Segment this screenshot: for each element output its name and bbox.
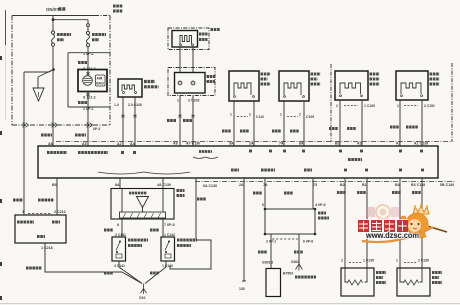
connector mark X upper lamp	[87, 72, 90, 75]
wire SDM to side sensor driver right	[366, 178, 368, 268]
side impact sensor passenger box	[397, 268, 430, 296]
svg-text:B3 C138: B3 C138	[411, 183, 425, 187]
wire airbag to clockspring right	[192, 47, 194, 73]
clock spring terminals	[178, 81, 182, 85]
label wire 0.35 yellow left	[41, 134, 52, 137]
brace SDM bottom left	[98, 172, 190, 174]
wire branch to fuse B11	[53, 19, 88, 21]
wire instrument panel boundary right vertical (dash-dot)	[109, 16, 111, 126]
svg-text:2A: 2A	[249, 142, 254, 146]
label SDM reserve power	[348, 158, 362, 161]
wire pretensioner driver right	[361, 100, 363, 146]
label wire 0.3 black/white	[26, 267, 42, 270]
label SDM right pin names	[344, 169, 424, 172]
side airbag driver connector box	[229, 71, 259, 101]
module box below DLC	[266, 269, 281, 297]
label wire 0.35 brown/white	[222, 130, 231, 133]
label wire 0.35 yellow right	[75, 134, 86, 137]
svg-text:1 C130: 1 C130	[364, 104, 375, 108]
svg-text:1: 1	[230, 113, 232, 117]
DLC diagnostic connector box	[265, 209, 315, 234]
svg-text:7A: 7A	[263, 183, 268, 187]
svg-text:8A: 8A	[115, 183, 120, 187]
label wire 0.5 brown sensor L	[337, 191, 346, 194]
label passenger airbag	[144, 82, 159, 87]
svg-text:2A: 2A	[239, 183, 244, 187]
svg-text:B6: B6	[52, 183, 57, 187]
shorting busbar	[120, 212, 166, 218]
label SDM diagnostic	[304, 169, 312, 172]
shorting bar connector box	[111, 189, 174, 220]
svg-text:3A: 3A	[229, 142, 234, 146]
watermark url	[362, 227, 433, 242]
watermark weiku text	[357, 219, 408, 233]
svg-text:6A C130: 6A C130	[203, 184, 217, 188]
wire DLC left down	[270, 234, 272, 269]
svg-text:1: 1	[280, 113, 282, 117]
svg-text:I/P-4: I/P-4	[93, 127, 100, 131]
label wire 0.5 black driver pret	[347, 127, 356, 130]
svg-text:1: 1	[22, 210, 24, 214]
svg-text:1: 1	[396, 259, 398, 263]
connector dashes PCM	[28, 213, 52, 215]
fuse B11	[86, 20, 89, 70]
svg-text:2 C136: 2 C136	[418, 259, 429, 263]
label wire 0.5 white	[290, 130, 299, 133]
wire harness boundary above SDM (dash-dot)	[56, 141, 452, 143]
wire passenger airbag left	[122, 97, 124, 146]
wire SDM to side sensor passenger right	[421, 178, 423, 268]
ground G10 symbol	[141, 284, 147, 295]
svg-text:7 I/P-6: 7 I/P-6	[164, 223, 175, 227]
label module name	[295, 276, 316, 279]
svg-text:C109: C109	[306, 115, 314, 119]
wire fuse B14 line to SDM pin A6	[52, 125, 54, 146]
wire SDM to side sensor passenger left	[399, 178, 401, 268]
svg-text:1 I/P-L: 1 I/P-L	[83, 107, 95, 111]
svg-text:73: 73	[313, 183, 317, 187]
wire pretensioner passenger right	[421, 100, 423, 146]
label wire 0.3 yellow	[78, 61, 87, 64]
label wire 0.8 yellow L	[104, 229, 113, 232]
label PCM ON/ST input	[17, 222, 60, 237]
label wire 0.3 brown	[78, 101, 87, 104]
svg-text:2 C210: 2 C210	[54, 210, 66, 214]
svg-text:2: 2	[341, 259, 343, 263]
label driver airbag	[199, 34, 208, 40]
instrument panel box around lamp	[68, 53, 110, 107]
wire DLC right down	[298, 234, 300, 264]
label wire 0.5 blue driver pret	[329, 127, 338, 130]
wire ON/ST feed top horizontal	[12, 15, 95, 17]
steering wheel boundary box (dash-dot)	[168, 28, 209, 50]
wire pretensioner driver left	[339, 100, 341, 146]
airbag warning lamp box	[78, 70, 107, 92]
connector mark X passenger wires	[122, 115, 137, 118]
side airbag passenger connector box	[279, 71, 309, 101]
connector dashes DLC bottom	[272, 238, 298, 240]
label wire 0.35 black	[167, 119, 177, 122]
svg-text:B2: B2	[335, 142, 340, 146]
watermark mascot	[401, 204, 447, 238]
svg-text:1: 1	[177, 99, 179, 103]
brace driver airbag pins	[193, 157, 218, 159]
label SDM ON/ST input	[47, 151, 423, 153]
label side airbag driver	[261, 74, 271, 84]
wire side airbag driver right	[253, 101, 255, 146]
label SDM ground	[231, 169, 239, 172]
svg-text:8A: 8A	[299, 142, 304, 146]
wire clockspring to SDM right	[192, 96, 194, 147]
label wire 0.5 yellow return	[197, 198, 206, 201]
label wire 0.5 yellow left	[13, 199, 23, 202]
svg-text:2 C151: 2 C151	[424, 104, 435, 108]
svg-text:A7 C130: A7 C130	[186, 142, 200, 146]
svg-text:A8: A8	[173, 142, 178, 146]
wire cluster feed to PCM (left of SDM)	[23, 125, 25, 215]
label wire 0.35 white/black	[240, 130, 249, 133]
warning indicator triangle	[38, 70, 54, 89]
wire instrument panel boundary left vertical (dash-dot)	[11, 16, 13, 126]
wires into busbar	[122, 189, 163, 213]
node junction dot	[52, 18, 55, 21]
wire pretensioner passenger left	[399, 100, 401, 146]
label side sensor driver	[376, 273, 386, 283]
label steering wheel	[211, 28, 221, 31]
label shorting bar title	[129, 192, 147, 195]
wire airbag to clockspring left	[179, 47, 181, 73]
driver airbag module box	[172, 31, 198, 48]
label wire 0.5 green	[183, 119, 193, 122]
wire return loop switch R to SDM 6A	[170, 240, 211, 269]
svg-text:4A C130: 4A C130	[157, 183, 171, 187]
clock spring boundary box (dash-dot)	[168, 68, 215, 96]
svg-text:5B C140: 5B C140	[440, 183, 454, 187]
svg-text:2: 2	[336, 104, 338, 108]
svg-text:C110: C110	[256, 115, 264, 119]
lamp symbol	[83, 76, 93, 86]
wire I/P harness boundary horizontal (dash-dot)	[12, 124, 110, 126]
wire cluster link	[24, 70, 54, 126]
wire SDM 2A long down	[242, 178, 246, 281]
SDM airbag control module box	[38, 146, 438, 178]
wire side airbag passenger left	[283, 101, 285, 146]
label pretensioner passenger	[430, 74, 440, 84]
label seat belt switch passenger	[177, 240, 197, 246]
wire PCM to ground junction	[45, 243, 122, 272]
svg-text:G10: G10	[139, 296, 146, 300]
harness separator dash-dot vertical right	[451, 63, 453, 142]
label shorting connector right	[177, 191, 185, 196]
wire harness boundary below SDM (dash-dot)	[195, 181, 455, 183]
connector mark X clockspring wires	[179, 115, 195, 118]
fuse B14	[51, 20, 54, 70]
wire switch L to ground	[119, 261, 142, 284]
scan artifact edge nubs	[0, 56, 2, 300]
label wire 0.5 blue/black pass pret	[406, 126, 418, 129]
passenger airbag connector box	[118, 79, 142, 97]
svg-text:8: 8	[117, 223, 119, 227]
svg-text:G303-2: G303-2	[262, 261, 273, 265]
connector mark X lower lamp	[87, 93, 90, 96]
wire SDM to DLC right	[312, 178, 314, 209]
svg-text:4 I/P-6: 4 I/P-6	[315, 203, 326, 207]
igniter symbol driver airbag	[180, 36, 191, 45]
wire SDM B6 to PCM	[56, 178, 58, 215]
wire SDM to side sensor driver left	[344, 178, 346, 268]
svg-text:6: 6	[262, 203, 264, 207]
wire SDM to shorting bar right	[162, 178, 164, 189]
label fuse B14 value	[57, 35, 71, 40]
wire junction into ground	[122, 272, 142, 284]
svg-text:1 C135: 1 C135	[363, 259, 374, 263]
label wire 0.8 brown R	[294, 251, 303, 254]
svg-text:1: 1	[397, 104, 399, 108]
label DLC	[318, 213, 329, 218]
wire SDM to DLC left	[264, 178, 266, 209]
svg-text:B4: B4	[395, 183, 400, 187]
connector chevrons at boundary	[23, 123, 29, 128]
svg-text:ON/ST: ON/ST	[46, 7, 60, 12]
svg-text:B2: B2	[340, 183, 345, 187]
svg-text:1 C142: 1 C142	[164, 233, 175, 237]
watermark faint logo	[366, 205, 399, 219]
label wire 0.5 green pass pret	[390, 126, 399, 129]
svg-text:S 121-2: S 121-2	[83, 96, 96, 100]
label wire 0.5 brown DLC	[253, 192, 262, 195]
label wire 0.8 black R	[150, 272, 159, 275]
label wire 0.8 brown L	[258, 251, 267, 254]
pretensioner driver connector box	[335, 71, 368, 100]
svg-text:1 C142: 1 C142	[162, 264, 173, 268]
label SDM crash signal	[261, 169, 275, 172]
scan artifact left edge	[5, 10, 7, 45]
wire switch R to ground	[145, 261, 166, 284]
svg-text:2 C202: 2 C202	[188, 99, 200, 103]
svg-text:2: 2	[299, 113, 301, 117]
label side airbag passenger	[311, 74, 321, 84]
label seat belt switch driver	[128, 240, 148, 246]
svg-text:130: 130	[239, 287, 245, 291]
wire side airbag driver left	[233, 101, 235, 146]
label side sensor passenger	[432, 273, 442, 283]
label wire 0.5 black DLC	[284, 192, 293, 195]
wire lamp to SDM	[87, 70, 89, 125]
seat belt switch passenger box	[161, 237, 175, 261]
svg-text:www.dzsc.com: www.dzsc.com	[365, 231, 419, 240]
wire shorting to switch L	[121, 219, 123, 237]
svg-text:B1: B1	[362, 183, 367, 187]
wire shorting to switch R	[162, 219, 164, 237]
svg-text:1.0: 1.0	[114, 103, 119, 107]
harness label top right	[113, 6, 123, 11]
label wire 0.5 blue	[272, 130, 281, 133]
pretensioner passenger connector box	[396, 71, 428, 100]
svg-text:BAG: BAG	[96, 82, 104, 86]
ground G302 symbol	[296, 264, 303, 271]
label AIR BAG tag	[96, 75, 106, 86]
svg-text:AIR: AIR	[97, 77, 103, 81]
svg-text:6 I/P-8: 6 I/P-8	[303, 240, 313, 244]
label wire 0.8 black L	[104, 272, 113, 275]
wire clockspring to SDM left	[179, 96, 181, 147]
label clock spring	[207, 77, 216, 82]
svg-text:G302: G302	[291, 260, 299, 264]
label wire 0.8 yellow R	[150, 229, 159, 232]
node cluster junction dot	[52, 68, 55, 71]
svg-text:A1 C139: A1 C139	[414, 142, 428, 146]
wire lamp line to SDM pin A5	[87, 125, 89, 146]
seat belt switch driver box	[112, 237, 126, 261]
wire feed drop to junction	[52, 16, 54, 20]
label pretensioner driver	[370, 74, 380, 84]
PCM box	[15, 215, 66, 243]
svg-text:2.0 C340: 2.0 C340	[128, 103, 142, 107]
label wire 0.5 brown/white	[38, 199, 54, 202]
svg-text:7A: 7A	[279, 142, 284, 146]
scan artifact bottom line	[0, 303, 460, 305]
label fuse B11 value	[92, 35, 106, 40]
svg-text:B7503: B7503	[283, 272, 293, 276]
harness separator dash-dot vertical mid	[330, 64, 332, 142]
svg-text:2: 2	[249, 113, 251, 117]
svg-text:1 C218: 1 C218	[41, 246, 53, 250]
svg-text:2 C141: 2 C141	[115, 233, 126, 237]
svg-text:A3: A3	[357, 142, 362, 146]
clock spring box	[175, 73, 206, 94]
label wire 0.5 black sensor R	[412, 191, 421, 194]
wire passenger airbag right	[134, 97, 136, 146]
side impact sensor driver box	[341, 268, 374, 296]
wire SDM to shorting bar left	[119, 178, 121, 189]
label wire 0.5 black sensor L	[357, 191, 366, 194]
node ON/ST power label	[46, 7, 66, 12]
wire side airbag passenger right	[303, 101, 305, 146]
wire fuse B14 to SDM	[52, 70, 54, 126]
shorting bar spring triangle	[137, 197, 149, 208]
label wire 0.5 brown sensor R	[392, 191, 401, 194]
svg-text:A2: A2	[396, 142, 401, 146]
